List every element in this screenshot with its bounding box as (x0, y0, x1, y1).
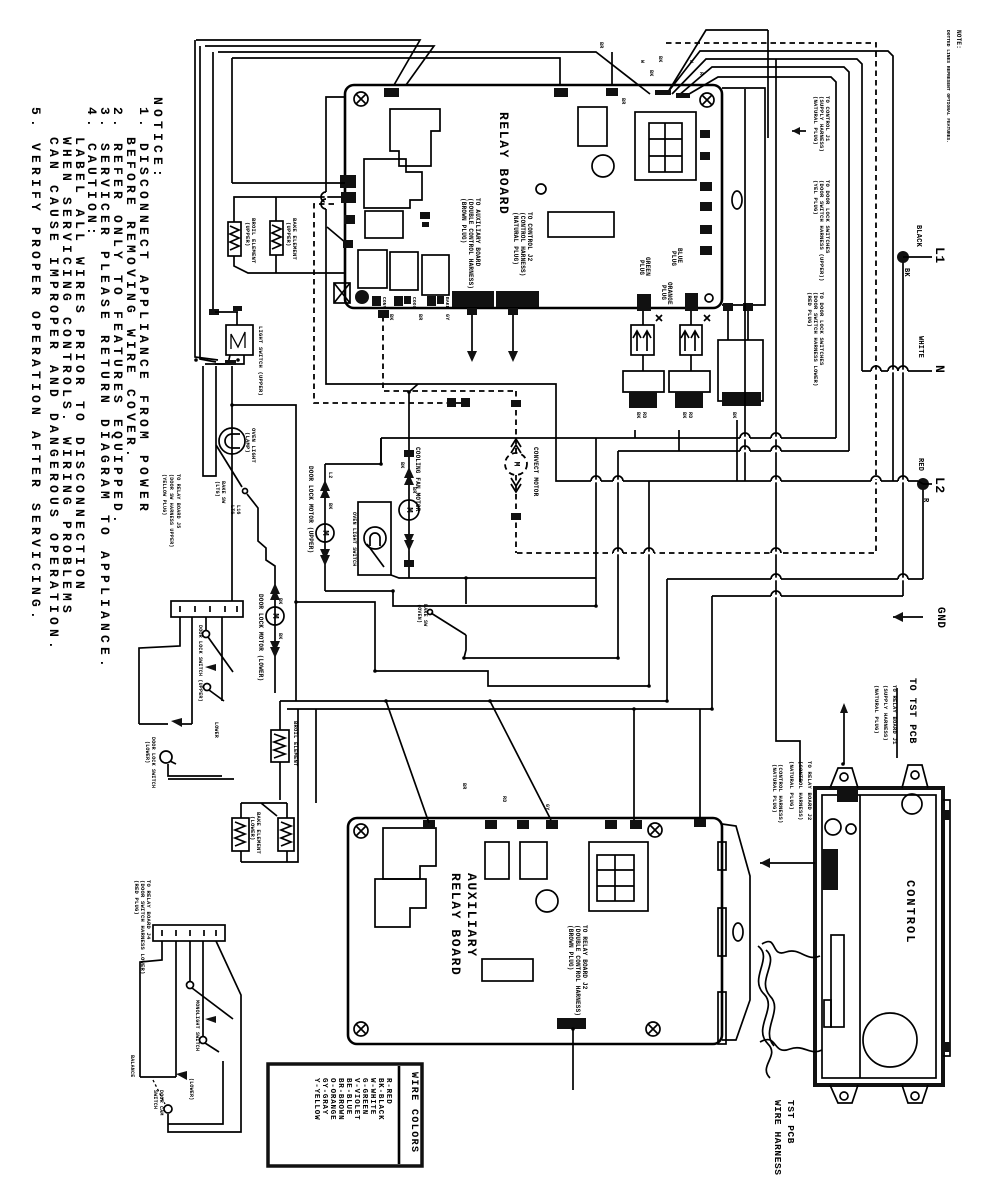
junction dot (632, 707, 636, 711)
svg-text:GY: GY (544, 804, 550, 810)
wire (236, 312, 238, 325)
wire (902, 1085, 928, 1103)
svg-text:(CONTROL HARNESS): (CONTROL HARNESS) (519, 212, 526, 277)
wire (315, 709, 317, 803)
wire (221, 617, 223, 701)
component box (520, 842, 547, 879)
wire (398, 1066, 401, 1164)
right edge connector blobs (700, 130, 710, 138)
junction dot (665, 699, 669, 703)
svg-text:WHITE: WHITE (916, 336, 924, 358)
junction dot (841, 762, 845, 766)
wire (202, 941, 204, 1037)
wire (712, 595, 903, 597)
wire (760, 1040, 822, 1052)
connector blob (700, 225, 712, 234)
wire (175, 941, 177, 1077)
wire (327, 227, 346, 243)
svg-text:(BROWN PLUG): (BROWN PLUG) (567, 925, 574, 971)
bottom rects (358, 250, 387, 288)
connector blob (944, 810, 950, 820)
arrowhead (320, 555, 330, 566)
wire (235, 822, 245, 846)
wire (728, 311, 748, 340)
junction dot (488, 699, 492, 703)
relay K1 (390, 109, 440, 166)
connector blob (630, 820, 642, 829)
svg-text:TO AUXILIARY BOARD: TO AUXILIARY BOARD (474, 198, 481, 267)
arrowhead (270, 583, 280, 594)
circle (316, 524, 334, 542)
svg-text:(NATURAL PLUG): (NATURAL PLUG) (873, 685, 880, 734)
circle (354, 1022, 368, 1036)
circle (164, 1105, 172, 1113)
junction blobs fan (655, 90, 671, 95)
svg-text:(DOOR SW HARNESS UPPER): (DOOR SW HARNESS UPPER) (168, 474, 174, 548)
wire top-left verticals (195, 40, 218, 360)
wire (191, 617, 193, 724)
wire (613, 548, 623, 553)
wire (923, 483, 932, 485)
wire (918, 481, 923, 484)
junction dot (384, 699, 388, 703)
wire (232, 405, 296, 701)
connector blob (629, 392, 657, 408)
circle (846, 824, 856, 834)
junction dot (407, 390, 411, 394)
component box (390, 252, 418, 290)
wire (192, 988, 233, 1019)
svg-text:(LOWER): (LOWER) (249, 816, 256, 841)
wire (279, 762, 281, 800)
wire (262, 182, 345, 184)
wire (209, 690, 224, 701)
svg-text:BR: BR (417, 314, 423, 320)
junction dot (571, 1027, 575, 1031)
connector blob (422, 222, 429, 227)
arrowhead (467, 351, 477, 362)
wire (279, 701, 281, 718)
junction dot (230, 403, 234, 407)
component box (718, 340, 763, 401)
circle (840, 773, 848, 781)
svg-text:O-ORANGE: O-ORANGE (328, 1078, 336, 1120)
svg-text:(UPPER): (UPPER) (285, 222, 292, 247)
arrowhead (760, 858, 770, 868)
svg-text:BR: BR (461, 783, 467, 789)
svg-text:GY-GRAY: GY-GRAY (320, 1078, 328, 1115)
green/orange plug assemblies below relay board (637, 294, 651, 311)
component box (631, 325, 654, 355)
svg-text:(LOWER): (LOWER) (144, 741, 150, 763)
svg-text:DOOR LOCK MOTOR (UPPER): DOOR LOCK MOTOR (UPPER) (307, 466, 314, 553)
component box (824, 1000, 831, 1027)
aux relay board (348, 818, 722, 1044)
notice text block (28, 97, 165, 671)
junction dot (464, 576, 468, 580)
dotted wire (153, 1080, 165, 1104)
svg-text:M: M (404, 507, 414, 512)
wire (633, 331, 651, 351)
connector blob (675, 392, 703, 408)
wire (656, 315, 662, 321)
bottom switches (140, 941, 162, 1077)
wire (212, 52, 214, 309)
misc right mid vertical (744, 89, 746, 481)
wire (280, 700, 667, 702)
circle (825, 819, 841, 835)
left loop lower (139, 723, 168, 725)
wire (617, 451, 619, 658)
wire (613, 476, 623, 481)
connector blob (743, 303, 753, 311)
wire (205, 1043, 219, 1052)
wire (490, 701, 551, 820)
connector blob (546, 820, 558, 829)
wire (678, 430, 680, 451)
terminal dot (355, 290, 369, 304)
door lock motor lower (274, 577, 276, 660)
svg-text:BK: BK (399, 462, 405, 468)
svg-text:(CONTROL HARNESS): (CONTROL HARNESS) (797, 761, 804, 821)
relay K2 (364, 159, 422, 208)
connector blob (700, 182, 712, 191)
svg-text:COOL: COOL (411, 297, 417, 309)
circle small (536, 184, 546, 194)
connector blob (404, 296, 411, 304)
broil element lower (271, 730, 289, 762)
connector blob (341, 192, 356, 203)
svg-text:BR: BR (598, 42, 604, 48)
svg-text:RELAY BOARD: RELAY BOARD (448, 873, 463, 976)
svg-text:(NATURAL PLUG): (NATURAL PLUG) (812, 96, 819, 145)
connector blob (700, 246, 712, 255)
junction dot (379, 462, 383, 466)
arrowhead (840, 703, 848, 713)
connector blob (606, 88, 618, 96)
wire (180, 606, 237, 612)
wide rect (548, 212, 614, 237)
svg-text:(DOUBLE CONTROL HARNESS): (DOUBLE CONTROL HARNESS) (574, 925, 581, 1016)
circle (266, 607, 284, 625)
arrowhead (404, 540, 414, 551)
junction under switch (205, 355, 230, 364)
note top right (945, 30, 962, 143)
svg-text:L2: L2 (327, 472, 333, 478)
connector blob (209, 309, 219, 315)
svg-text:BK: BK (902, 268, 910, 277)
wire (375, 671, 649, 686)
bottom-right horizontal rails (667, 578, 923, 580)
junction dot (462, 656, 466, 660)
svg-text:SWITCH: SWITCH (152, 1090, 158, 1109)
svg-text:TO RELAY BOARD J5: TO RELAY BOARD J5 (175, 474, 181, 528)
component box (334, 283, 350, 303)
wire (232, 58, 560, 85)
circle (840, 1092, 848, 1100)
component box (589, 842, 648, 911)
wire (200, 46, 216, 362)
connector blob (700, 152, 710, 160)
connector blob (685, 293, 698, 311)
wire (170, 761, 176, 764)
wire (669, 371, 710, 392)
svg-text:BK: BK (635, 412, 641, 418)
wire (871, 476, 881, 481)
svg-text:TO RELAY BOARD J2: TO RELAY BOARD J2 (806, 761, 813, 821)
svg-text:LOWER: LOWER (213, 722, 219, 738)
wire (771, 433, 781, 438)
dashed top right (516, 43, 876, 553)
wire (633, 709, 635, 820)
svg-text:TO RELAY BOARD J1: TO RELAY BOARD J1 (891, 685, 898, 745)
connector blob (447, 398, 456, 407)
connector blob (511, 400, 521, 407)
svg-text:R: R (698, 72, 704, 75)
circle (863, 1013, 917, 1067)
wire (231, 332, 245, 349)
svg-text:(OVEN): (OVEN) (416, 604, 422, 623)
connector blob (723, 303, 733, 311)
wire top bundle horizontals (196, 40, 420, 85)
wire (234, 256, 345, 273)
wire (321, 199, 326, 209)
svg-text:BR: BR (620, 98, 626, 104)
wire (611, 52, 613, 85)
wire junction to mid vertical (231, 366, 233, 601)
junction dot (294, 600, 298, 604)
circle (536, 890, 558, 912)
connector blob (384, 88, 399, 97)
svg-text:N: N (932, 365, 947, 373)
wire (644, 548, 654, 553)
GND arrow (893, 616, 923, 618)
svg-text:(LAMP): (LAMP) (244, 432, 251, 453)
arrowhead (404, 474, 414, 485)
wire (760, 862, 815, 864)
arrowhead (270, 641, 280, 652)
oval hole (732, 191, 742, 209)
junction dot (236, 358, 240, 362)
wire (275, 197, 277, 221)
circle (204, 684, 211, 691)
wire (623, 371, 664, 392)
svg-text:BLACK: BLACK (914, 225, 922, 248)
component box (822, 795, 936, 1078)
bake element upper (270, 221, 283, 255)
wire (740, 446, 750, 451)
svg-text:COOLING FAN MOTOR: COOLING FAN MOTOR (414, 447, 421, 512)
circle (911, 1092, 919, 1100)
strip wires and switches (139, 617, 180, 724)
harness squiggles (762, 942, 820, 958)
svg-text:5. VERIFY PROPER OPERATION AFT: 5. VERIFY PROPER OPERATION AFTER SERVICI… (28, 107, 43, 623)
wire (274, 734, 285, 758)
svg-text:(SUPPLY HARNESS): (SUPPLY HARNESS) (882, 685, 889, 741)
component box (485, 842, 509, 879)
circle (428, 610, 433, 615)
wire (162, 930, 216, 936)
svg-text:W-WHITE: W-WHITE (368, 1078, 376, 1115)
wire (597, 855, 634, 901)
connector blob (343, 240, 353, 248)
svg-text:BK: BK (277, 598, 283, 604)
aux top edge connector blobs (423, 820, 435, 829)
bottom left terminal strip (153, 925, 225, 941)
svg-text:BE-BLUE: BE-BLUE (344, 1078, 352, 1115)
board mount holes (354, 92, 368, 106)
svg-text:CONVECT MOTOR: CONVECT MOTOR (532, 447, 539, 497)
connector blob (404, 560, 414, 567)
small rect (365, 211, 403, 238)
svg-text:TST PCB: TST PCB (785, 1100, 796, 1144)
wire (871, 366, 881, 371)
wavy harness right of aux (758, 946, 772, 1078)
wire (205, 617, 207, 631)
connector blob (508, 308, 518, 315)
wire (205, 46, 434, 85)
connector blob (420, 212, 430, 219)
wire (898, 476, 908, 481)
wire (771, 548, 781, 553)
svg-text:BK-BLACK: BK-BLACK (376, 1078, 384, 1120)
component box (718, 992, 726, 1044)
wire (902, 765, 928, 788)
connector blob (676, 93, 690, 98)
svg-text:RED: RED (916, 458, 924, 471)
wire (241, 851, 287, 862)
control tabs (830, 768, 858, 788)
connector blob (404, 450, 414, 457)
aux area horizontals (464, 657, 618, 659)
legend box (268, 1064, 422, 1166)
wire top-right fan (668, 30, 768, 92)
component box (482, 959, 533, 981)
wire (684, 77, 836, 438)
arrowhead (176, 1071, 187, 1080)
wire (471, 310, 473, 358)
wire (843, 705, 845, 764)
wire (740, 433, 750, 438)
connector blob (511, 513, 521, 520)
control internals (902, 794, 922, 814)
component box (831, 935, 844, 1027)
wire (272, 225, 281, 249)
svg-text:CONV: CONV (381, 297, 387, 309)
middle right horizontals (326, 97, 918, 481)
connector blob (427, 296, 436, 306)
svg-text:WIRE COLORS: WIRE COLORS (408, 1072, 419, 1153)
wire (595, 438, 597, 606)
control box (815, 788, 943, 1085)
svg-text:PLUG: PLUG (660, 285, 667, 300)
wire (672, 59, 862, 371)
connector blob (605, 820, 617, 829)
wire (140, 1076, 176, 1078)
junction dot (616, 656, 620, 660)
aux relay K1 (383, 828, 436, 879)
wire (203, 366, 216, 476)
wire (690, 311, 692, 371)
wire (699, 709, 701, 818)
wire (668, 51, 893, 481)
wire (431, 613, 466, 635)
circle (354, 824, 368, 838)
wire (888, 366, 898, 371)
svg-text:L1: L1 (932, 247, 947, 264)
svg-text:OVEN LIGHT SWITCH: OVEN LIGHT SWITCH (351, 512, 357, 566)
wire (765, 950, 774, 1046)
cooling fan top path (409, 384, 418, 410)
wire (287, 708, 712, 710)
svg-text:(RED PLUG): (RED PLUG) (133, 880, 140, 915)
wire (649, 123, 682, 172)
wire (681, 331, 699, 351)
connector blob (496, 291, 539, 307)
wire (215, 311, 238, 313)
circle (505, 453, 527, 475)
svg-text:DOOR LOCK MOTOR (LOWER): DOOR LOCK MOTOR (LOWER) (257, 594, 264, 681)
wire (232, 182, 262, 184)
N terminal (862, 370, 932, 372)
broil element upper (228, 222, 241, 256)
control right flange (943, 800, 950, 1056)
dashed wire (314, 204, 470, 403)
arrowhead (404, 467, 414, 478)
svg-text:M: M (270, 613, 280, 618)
connector blob (557, 1018, 586, 1029)
wire (380, 438, 382, 464)
bake element pair lower (232, 818, 249, 851)
svg-text:TO TST PCB: TO TST PCB (906, 678, 917, 744)
lamp switch diagonal (216, 445, 242, 487)
svg-text:TO RELAY BOARD J2: TO RELAY BOARD J2 (581, 925, 588, 990)
component box (649, 123, 682, 172)
DLM upper bottom wire (325, 591, 596, 606)
wire (896, 688, 898, 758)
svg-text:(DOUBLE CONTROL HARNESS): (DOUBLE CONTROL HARNESS) (467, 198, 474, 289)
connector blob (485, 820, 497, 829)
connector blob (394, 296, 403, 306)
wire (168, 941, 241, 1132)
arrowhead (404, 534, 414, 545)
circle (705, 294, 713, 302)
wire (792, 130, 806, 132)
component box (718, 842, 726, 870)
connector blob (225, 360, 236, 365)
dashed wire (515, 475, 517, 553)
svg-text:G-GREEN: G-GREEN (360, 1078, 368, 1115)
svg-text:BK: BK (277, 633, 283, 639)
svg-text:(BROWN PLUG): (BROWN PLUG) (460, 198, 467, 244)
wire (168, 764, 222, 776)
wire (512, 310, 514, 358)
connector blob (822, 849, 838, 890)
arrowhead (508, 351, 518, 362)
svg-text:BK: BK (327, 503, 333, 509)
wire (722, 824, 750, 1040)
svg-text:DOTTED LINES REPRESENT OPTIONA: DOTTED LINES REPRESENT OPTIONAL FEATURES… (945, 30, 951, 143)
wire (230, 226, 239, 250)
L1 rail (902, 257, 904, 596)
svg-text:GND: GND (934, 607, 946, 629)
connector blob (437, 296, 444, 304)
svg-text:L2: L2 (932, 477, 947, 494)
svg-text:(NATURAL PLUG): (NATURAL PLUG) (771, 764, 778, 813)
circle (646, 1022, 660, 1036)
light switch upper box (226, 325, 253, 355)
wires below plugs (634, 430, 636, 438)
